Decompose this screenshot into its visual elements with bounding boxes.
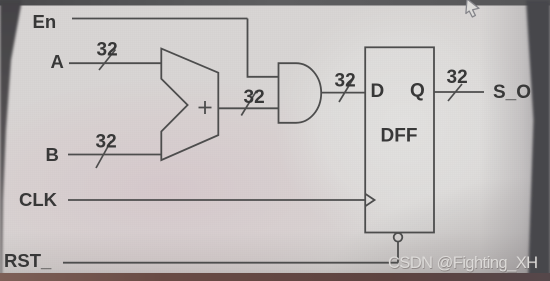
photo border top: [0, 0, 550, 6]
svg-text:32: 32: [97, 39, 118, 60]
svg-text:En: En: [33, 11, 57, 32]
DFF U_ff body: [365, 47, 434, 232]
svg-text:CSDN @Fighting_XH: CSDN @Fighting_XH: [388, 254, 538, 272]
svg-text:32: 32: [447, 67, 468, 88]
wire A input: [69, 62, 161, 64]
svg-text:DFF: DFF: [381, 126, 418, 147]
wire Q output: [434, 91, 484, 93]
svg-text:B: B: [46, 144, 59, 165]
wire B input: [68, 154, 161, 156]
svg-text:CLK: CLK: [19, 189, 58, 210]
wire RST_: [63, 262, 398, 264]
photo border right wedge: [526, 0, 550, 281]
bus slash on Q output: [448, 84, 462, 101]
wire adder output to AND gate: [218, 107, 278, 109]
photo border left wedge: [0, 0, 22, 281]
mouse cursor: [466, 0, 479, 17]
bus slash on B: [96, 141, 111, 168]
AND gate U_and body: [279, 63, 322, 123]
svg-text:S_O: S_O: [493, 82, 531, 103]
wire RST_ vertical to reset bubble: [397, 242, 399, 263]
svg-text:Q: Q: [410, 81, 425, 102]
DFF reset bubble: [394, 233, 403, 242]
adder plus sign: [199, 101, 212, 114]
bus slash on adder output: [241, 91, 256, 116]
svg-text:D: D: [371, 81, 385, 102]
wire En horizontal: [72, 18, 248, 20]
svg-text:A: A: [51, 51, 64, 72]
bus slash on AND output: [339, 79, 353, 102]
bus slash on A: [99, 50, 116, 71]
adder U_add body: [161, 49, 218, 161]
svg-text:32: 32: [96, 132, 117, 153]
photo border bottom strip: [0, 273, 550, 281]
svg-text:32: 32: [244, 87, 265, 108]
wire AND output to DFF D: [321, 92, 365, 94]
svg-text:32: 32: [335, 71, 356, 92]
svg-text:RST_: RST_: [4, 250, 52, 271]
DFF clock triangle: [365, 194, 374, 206]
wire CLK: [68, 199, 365, 201]
wire En vertical drop to AND gate: [248, 19, 279, 77]
